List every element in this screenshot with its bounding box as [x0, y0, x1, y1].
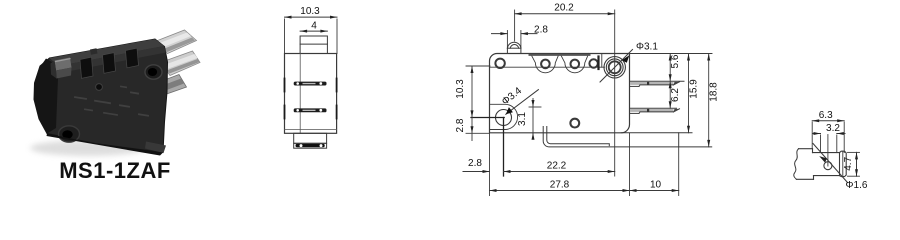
svg-text:10: 10 [650, 180, 662, 191]
photo right hole boss [145, 65, 162, 79]
scallop circle 1 [541, 60, 550, 69]
plunger dome [507, 42, 521, 53]
svg-text:6.2: 6.2 [670, 88, 681, 102]
scallop pocket 1 [531, 54, 560, 73]
svg-text:3.1: 3.1 [517, 112, 528, 126]
plunger centerline [514, 10, 516, 41]
side terminal bar 2 [285, 106, 337, 119]
photo rivet dot [96, 84, 103, 91]
photo terminal blade 3 [150, 75, 187, 98]
svg-text:5.6: 5.6 [670, 54, 681, 68]
svg-text:2.8: 2.8 [534, 24, 548, 35]
part outline [796, 149, 839, 180]
terminal end cap [840, 151, 847, 176]
dim 2.8 bottom [463, 158, 490, 173]
photo soft shadow [30, 140, 146, 156]
dim 5.6 / 6.2 [669, 54, 681, 109]
extension body bottom left [466, 132, 490, 134]
side terminal bar 1 [285, 79, 337, 92]
dim 20.2 right extension [614, 10, 616, 176]
leader and label dia 3.4 [500, 85, 538, 114]
side body parting line horizontal [285, 128, 337, 130]
common terminal J-bend inner [547, 127, 610, 146]
photo body left face [34, 59, 59, 134]
side body parting line vertical [299, 54, 301, 134]
svg-text:MS1-1ZAF: MS1-1ZAF [59, 158, 171, 183]
plunger extension lines [506, 31, 508, 49]
dim 10 [630, 180, 679, 193]
center extension through hole [827, 135, 829, 167]
leader and label dia 3.1 [600, 42, 658, 83]
hole crosshair vertical [503, 118, 505, 177]
dim 10.3 extension lines [284, 19, 286, 54]
top-left mounting circle [495, 59, 504, 68]
break line [794, 149, 799, 180]
dim 15.9 [687, 54, 700, 133]
mid body circle [570, 119, 579, 128]
photo top slots recess [80, 48, 139, 78]
dim 4.7 [843, 152, 860, 176]
photo switch body [34, 39, 168, 153]
side bottom step block [294, 133, 327, 143]
photo terminal blade 1 [155, 30, 197, 54]
left dim column 10.3 / 2.8 [455, 66, 474, 141]
svg-text:2.8: 2.8 [455, 118, 466, 132]
terminal 2 [630, 108, 680, 113]
dim 18.8 [707, 54, 719, 147]
svg-text:6.3: 6.3 [819, 110, 833, 121]
bottom-left hole boss (stadium) [490, 104, 518, 129]
side button [300, 36, 327, 54]
scallop circle 2 [571, 60, 580, 69]
svg-text:18.8: 18.8 [709, 82, 720, 102]
terminal 1 [630, 81, 685, 86]
photo top nub [90, 48, 98, 55]
svg-text:10.3: 10.3 [300, 6, 320, 17]
svg-text:15.9: 15.9 [689, 79, 700, 99]
top strip shading [530, 54, 590, 56]
extension tick at y66 [466, 65, 490, 67]
dim 2.8 plunger [492, 24, 549, 35]
svg-text:22.2: 22.2 [547, 161, 567, 172]
side body [285, 54, 337, 134]
inner top line [490, 66, 605, 68]
svg-text:Φ3.4: Φ3.4 [500, 85, 524, 107]
side bottom terminal block [294, 143, 327, 148]
dim 3.2 extensions [820, 135, 822, 153]
svg-text:4.7: 4.7 [843, 156, 854, 170]
dim 6.3 extensions [811, 122, 813, 149]
dim 10.3 line [285, 6, 338, 19]
photo bottom shade [47, 134, 164, 156]
photo body top bevel [59, 46, 167, 73]
terminal hole [824, 162, 832, 170]
svg-text:27.8: 27.8 [550, 180, 570, 191]
svg-text:2.8: 2.8 [468, 158, 482, 169]
svg-text:3.2: 3.2 [826, 123, 840, 134]
extension lines below [489, 134, 491, 196]
svg-text:10.3: 10.3 [455, 79, 466, 99]
photo bottom right terminal stub [145, 142, 166, 154]
bottom block top edge [621, 132, 692, 134]
leader and label dia 1.6 [813, 144, 868, 192]
svg-text:4: 4 [311, 20, 317, 31]
common terminal J-bend outer [543, 127, 712, 147]
photo plunger button [51, 58, 72, 79]
dim 3.2 [813, 123, 846, 135]
big mounting hole boss [604, 57, 625, 78]
bottom block right edge [678, 133, 680, 147]
svg-text:Φ3.1: Φ3.1 [636, 42, 658, 53]
dim 4 [300, 20, 327, 32]
scallop pocket 2 [560, 54, 589, 73]
dim 3.1 [517, 99, 541, 140]
hole crosshair horizontal [471, 117, 504, 119]
svg-text:Φ1.6: Φ1.6 [846, 180, 868, 191]
rib bar right of small circle [597, 57, 599, 70]
svg-text:20.2: 20.2 [554, 3, 574, 14]
photo terminal blade 2 [161, 51, 201, 76]
main body outline [490, 54, 630, 133]
dim 20.2 [515, 3, 615, 16]
dim 6.3 [812, 110, 844, 122]
small circle right of scallops [589, 59, 597, 67]
dim 27.8 [490, 180, 630, 193]
photo body top face [50, 39, 165, 66]
photo bottom-left boss [59, 126, 80, 142]
dim 22.2 [504, 161, 615, 174]
top edge extension right [630, 53, 712, 55]
photo embossed marks [74, 86, 149, 117]
bottom-left hole [496, 110, 512, 126]
